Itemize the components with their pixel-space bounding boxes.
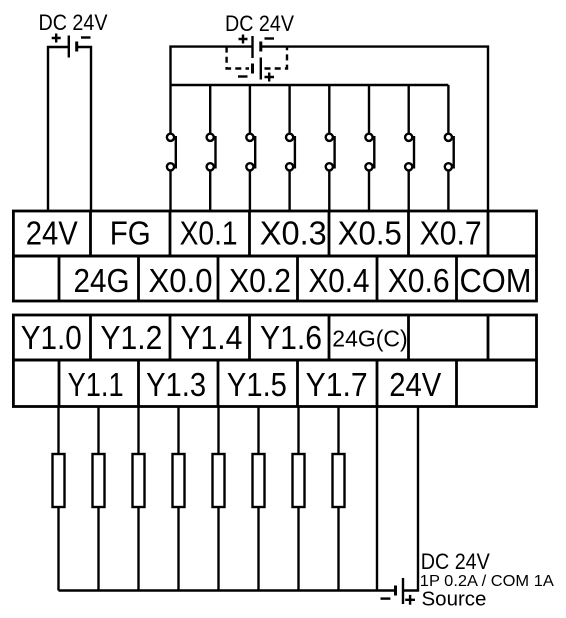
svg-text:X0.5: X0.5 [338,215,402,252]
svg-text:Y1.0: Y1.0 [21,319,82,356]
svg-text:24G: 24G [74,262,130,299]
svg-text:Y1.7: Y1.7 [306,366,368,403]
wire input bus [171,84,449,86]
switch S5 (X0.4) [326,85,335,211]
svg-text:DC 24V: DC 24V [39,10,108,35]
svg-text:Y1.2: Y1.2 [100,319,162,356]
svg-text:COM: COM [460,262,532,299]
battery B2alt dashed left lead [227,47,249,69]
battery B3 plus mark [405,595,415,605]
svg-text:X0.6: X0.6 [388,262,450,299]
svg-text:Y1.3: Y1.3 [146,366,206,403]
load L8 [333,407,345,591]
battery B1 plus mark [52,34,61,43]
load L6 [253,407,265,591]
load L4 [173,407,185,591]
battery B2alt long plate [260,58,262,80]
battery B1 minus mark [81,36,91,38]
switch S4 (X0.3) [286,85,295,211]
switch S6 (X0.5) [365,85,374,211]
wire top bus left [171,47,253,85]
battery B3 minus mark [381,597,391,599]
load L3 [133,407,145,591]
svg-text:X0.7: X0.7 [420,215,482,252]
svg-text:DC 24V: DC 24V [421,549,490,574]
battery B2alt short plate [251,64,254,74]
svg-text:24V: 24V [389,366,441,403]
load L7 [293,407,305,591]
load L5 [213,407,225,591]
switch S2 (X0.1) [207,85,216,211]
svg-text:X0.3: X0.3 [260,215,327,252]
battery B1 long plate [68,36,70,58]
svg-text:Y1.4: Y1.4 [180,319,242,356]
wire top bus right [261,47,488,211]
wire battery B3 to 24V terminal [403,407,418,591]
svg-text:X0.4: X0.4 [309,262,370,299]
switch S3 (X0.2) [246,85,255,211]
svg-text:DC 24V: DC 24V [225,11,294,36]
terminal row 2 dividers [59,256,457,301]
battery B2 plus mark [239,35,248,44]
battery B2alt plus mark [265,73,275,82]
svg-text:Y1.1: Y1.1 [68,366,124,403]
battery B3 long plate [402,578,404,604]
switch S1 (X0.0) [167,85,176,211]
wire B1 right to FG terminal [77,47,91,211]
svg-text:X0.2: X0.2 [229,262,291,299]
wire 24G(C) return [376,407,378,591]
svg-text:Y1.5: Y1.5 [227,366,287,403]
terminal row 1 box [13,211,536,256]
terminal row 2 box [13,256,536,301]
load L2 [93,407,105,591]
wire bottom bus [59,589,396,591]
load L1 [53,407,65,591]
svg-text:FG: FG [110,215,151,252]
svg-text:Source: Source [422,588,487,611]
battery B2 short plate [259,42,262,52]
battery B2 minus mark [265,37,275,39]
battery B2alt dashed right lead [265,47,288,69]
battery B1 short plate [75,42,78,52]
terminal row 4 box [13,360,536,407]
switch S8 (X0.7) [445,85,454,211]
svg-text:X0.0: X0.0 [149,262,213,299]
battery B2alt minus mark [238,75,248,77]
svg-text:X0.1: X0.1 [180,215,238,252]
terminal row 4 dividers [59,360,457,407]
svg-text:24G(C): 24G(C) [332,326,407,352]
terminal row 1 dividers [91,211,489,256]
svg-text:Y1.6: Y1.6 [260,319,322,356]
terminal row 3 box [13,315,536,360]
wire B1 left to 24V terminal [48,47,69,211]
switch S7 (X0.6) [405,85,414,211]
svg-text:24V: 24V [26,215,78,252]
battery B3 short plate [394,586,397,596]
terminal row 3 dividers [91,315,489,360]
battery B2 long plate [251,36,253,58]
